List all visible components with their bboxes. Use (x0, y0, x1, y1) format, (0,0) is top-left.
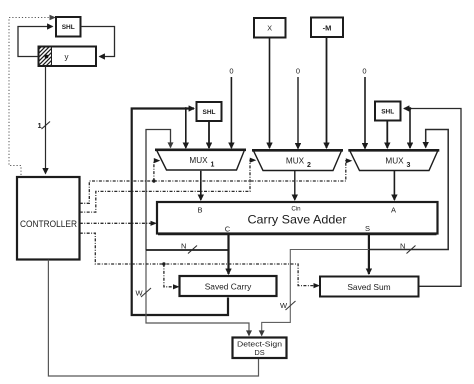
dashed control: MUX1/MUX3 select (80, 161, 348, 204)
dashed control: CSA carry select (80, 222, 153, 224)
arrowhead into MUX3 select (346, 158, 353, 163)
register X (254, 18, 286, 38)
arrowhead into CSA left (151, 221, 158, 226)
wire: MUX3 output A into CSA (393, 171, 395, 200)
junction + branch down into MUX3 input 3 (409, 107, 412, 110)
svg-text:MUX: MUX (189, 156, 208, 165)
svg-text:0: 0 (362, 67, 366, 76)
svg-text:B: B (197, 206, 202, 215)
arrowhead into Saved Sum enable (314, 283, 321, 288)
wire: C output into Saved Carry (227, 235, 229, 275)
carry save adder U2 (157, 202, 438, 235)
SHL box (top-left, shifts y) (56, 17, 81, 37)
SHL box above MUX3 (375, 102, 401, 121)
wire: C low bits down to Detect-Sign (146, 250, 249, 336)
svg-text:CONTROLLER: CONTROLLER (20, 219, 77, 230)
svg-text:Carry Save Adder: Carry Save Adder (248, 213, 347, 227)
bus slash N on left N-line (188, 246, 197, 254)
CONTROLLER U1 (17, 177, 80, 260)
bus slash W on S-DS wire (286, 301, 296, 310)
svg-text:N: N (400, 242, 405, 251)
wire: S output into Saved Sum (368, 235, 370, 275)
bus slash W on C-DS wire (141, 288, 151, 297)
register Saved Carry (180, 276, 277, 296)
wire: SHL output to y right edge (81, 27, 115, 57)
wire: MUX1 output B into CSA (200, 171, 202, 200)
svg-text:SHL: SHL (381, 109, 394, 116)
svg-text:N: N (181, 242, 186, 251)
arrowhead into MUX2 select (250, 158, 256, 163)
svg-text:1: 1 (38, 121, 42, 130)
svg-text:SHL: SHL (203, 109, 216, 116)
wire: S low bits to Detect-Sign (262, 250, 369, 336)
wire: dotted arrowhead into SHL(y) top-left (50, 15, 57, 20)
svg-text:2: 2 (307, 162, 311, 169)
wire: S result feedback bracket into MUX3 input 4 (369, 130, 448, 250)
wire: SHL output down into MUX1 (208, 122, 210, 149)
arrowhead into Saved Carry enable (173, 284, 180, 289)
dashed control: MUX2 select (80, 160, 252, 212)
junction + branch down into MUX1 input 2 (184, 107, 187, 110)
svg-text:X: X (267, 24, 272, 33)
svg-text:1: 1 (211, 162, 215, 169)
register -M (311, 18, 343, 38)
svg-text:A: A (391, 206, 396, 215)
svg-text:0: 0 (229, 67, 233, 76)
svg-text:W: W (136, 289, 144, 298)
svg-text:3: 3 (407, 162, 411, 169)
wire: dotted control from controller up left side to SHL(y) (9, 18, 50, 176)
wire: N-line from C output left to feedback column (146, 249, 229, 251)
MUX2 (252, 150, 343, 170)
SHL box above MUX1 (197, 102, 222, 121)
svg-text:C: C (225, 225, 231, 234)
wire: y left edge to SHL input (18, 27, 53, 57)
svg-text:y: y (65, 52, 69, 61)
svg-text:W: W (280, 301, 288, 310)
svg-text:Saved Carry: Saved Carry (205, 282, 252, 292)
junction dot on enable line (162, 262, 165, 265)
bus-width slash "1" on y-controller wire (42, 122, 51, 130)
svg-text:SHL: SHL (62, 24, 75, 31)
svg-text:S: S (365, 224, 370, 233)
wire: controller bottom loop to Detect-Sign output (48, 260, 258, 376)
wire: X down to MUX2 (269, 38, 271, 148)
svg-text:0: 0 (296, 67, 300, 76)
dashed control: register write enables (80, 233, 316, 287)
wire: y output down to CONTROLLER (45, 66, 47, 174)
svg-text:MUX: MUX (286, 157, 305, 166)
register Saved Sum (320, 277, 419, 297)
svg-text:DS: DS (254, 348, 264, 357)
arrowhead into MUX1 select (154, 158, 161, 163)
MUX1 (155, 150, 246, 170)
wire: MUX2 output Cin into CSA (294, 171, 296, 200)
svg-text:Cin: Cin (291, 206, 301, 213)
svg-text:MUX: MUX (385, 157, 404, 166)
junction dot on select line (152, 179, 155, 182)
wire: C result feedback bracket into MUX1 input 1 (146, 130, 171, 251)
Detect-Sign DS unit (233, 338, 287, 359)
MUX3 (348, 150, 439, 170)
register y (with hatched low cell) (39, 47, 97, 67)
wire: saved-carry feedback into SHL and MUX1 (left loop) (132, 109, 228, 316)
bus slash N on right N-line (407, 246, 416, 254)
wire: SHL output down into MUX3 (386, 121, 388, 149)
svg-text:-M: -M (323, 24, 332, 33)
svg-text:Saved Sum: Saved Sum (347, 282, 390, 292)
wire: -M down to MUX2 (326, 37, 328, 148)
wire: saved-sum feedback right loop into SHL (404, 109, 461, 287)
